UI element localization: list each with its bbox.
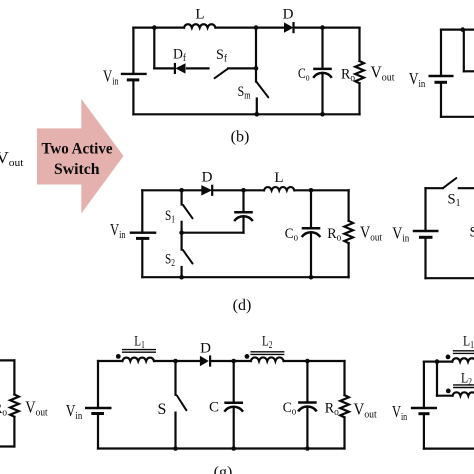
wire (d) middle horizontal	[182, 232, 244, 234]
wire (d) left rail lower	[141, 238, 143, 277]
wire (c) bottom	[441, 116, 474, 118]
inductor L2 (h)	[437, 385, 474, 396]
node (b) Sm bottom	[254, 112, 259, 117]
node (g) Co top	[305, 359, 310, 364]
capacitor C (g)	[224, 403, 243, 412]
svg-text:C: C	[209, 400, 219, 416]
svg-text:Two Active: Two Active	[42, 140, 113, 157]
node (d) cap top	[241, 188, 246, 193]
wire (f) top partial	[0, 359, 14, 361]
arrow Two Active Switch	[37, 99, 124, 214]
node (b) top-Co junction	[320, 25, 325, 30]
wire (b) Df branch vertical	[153, 28, 155, 69]
node (g) Co bottom	[305, 446, 310, 451]
svg-text:(d): (d)	[233, 297, 252, 314]
capacitor Co (b)	[313, 69, 332, 78]
battery Vin (h)	[411, 408, 437, 414]
resistor Ro (g)	[340, 395, 349, 417]
diode D (b)	[284, 22, 294, 33]
wire (g) bottom	[98, 447, 345, 449]
node (g) S top	[173, 359, 178, 364]
wire (b) bottom	[133, 113, 359, 115]
wire (b) left rail upper	[132, 28, 134, 74]
inductor L1 (h)	[437, 351, 474, 362]
diode D (g)	[200, 355, 210, 366]
node (b) Sf-Sm junction	[254, 66, 259, 71]
wire (b) Df branch horizontal	[154, 67, 175, 69]
wire (h) top left	[424, 361, 437, 363]
wire (b) right rail upper	[358, 28, 360, 61]
node (d) Co bottom	[309, 275, 314, 280]
inductor L2 (g)	[245, 352, 285, 361]
node (g) S bottom	[173, 446, 178, 451]
wire (g) top between D and L2	[211, 360, 251, 362]
wire (d) bottom	[142, 276, 348, 278]
node (d) S1 top	[179, 188, 184, 193]
wire (d) cap branch lower	[242, 216, 244, 232]
svg-text:L: L	[274, 170, 283, 186]
svg-text:(g): (g)	[214, 464, 233, 474]
wire (c) left rail lower	[440, 82, 442, 117]
wire (d) right rail lower	[348, 243, 350, 277]
capacitor Co (g)	[298, 403, 317, 412]
wire (d) top left segment	[142, 189, 201, 191]
battery Vin (e)	[413, 231, 439, 237]
wire (d) Co branch lower	[310, 232, 312, 277]
svg-text:S: S	[158, 401, 167, 418]
wire (b) Sf right	[228, 67, 256, 69]
wire (b) top mid segment	[216, 27, 285, 29]
wire (b) right rail lower	[358, 83, 360, 114]
wire (h) left rail lower	[423, 414, 425, 449]
resistor Ro (f)	[10, 395, 19, 417]
battery Vin (d)	[130, 233, 157, 239]
inductor L (b)	[184, 24, 215, 27]
node (g) C top	[231, 359, 236, 364]
switch S (g)	[176, 361, 187, 449]
svg-text:(b): (b)	[231, 129, 250, 146]
svg-text:L: L	[195, 7, 204, 23]
wire (f) bottom partial	[0, 445, 14, 447]
node (b) top-L junction	[152, 25, 157, 30]
node (d) S2 bottom	[179, 275, 184, 280]
wire (g) right rail lower	[343, 417, 345, 448]
battery Vin (c)	[429, 76, 454, 82]
resistor Ro (b)	[355, 61, 364, 83]
wire (e) top left	[426, 187, 443, 189]
wire (b) Sm lower	[256, 99, 258, 115]
svg-text:Switch: Switch	[54, 161, 100, 178]
wire (g) left rail lower	[97, 414, 99, 449]
inductor L1 (g)	[116, 350, 156, 361]
wire (c) left rail upper	[440, 30, 442, 76]
resistor Ro (d)	[344, 221, 353, 243]
node (d) S1-S2 junction	[179, 230, 184, 235]
battery Vin (b)	[121, 74, 147, 80]
wire (b) Sm upper	[255, 28, 257, 82]
diode Df (b)	[175, 63, 186, 74]
wire (h) bottom	[424, 448, 474, 450]
switch Sf (b)	[215, 68, 229, 78]
wire (g) top left segment	[98, 360, 122, 362]
node (c) junction	[460, 27, 465, 32]
battery Vin (g)	[85, 408, 112, 414]
wire (b) Co branch upper	[321, 28, 323, 69]
svg-text:S: S	[470, 225, 474, 241]
wire (d) top right segment	[294, 189, 348, 191]
wire (e) left rail upper	[424, 188, 426, 231]
wire (b) top right segment	[294, 27, 360, 29]
wire (g) top between L1 and S	[154, 360, 201, 362]
wire (b) left rail lower	[132, 80, 134, 114]
wire (g) top right segment	[284, 360, 345, 362]
wire (e) top right	[459, 187, 474, 189]
wire (g) C branch upper	[233, 361, 235, 403]
wire (b) Co branch lower	[321, 73, 323, 114]
wire (h) L2 branch vertical	[436, 362, 438, 396]
svg-text:D: D	[200, 340, 211, 356]
wire (d) left rail upper	[141, 190, 143, 232]
switch S1 (d)	[182, 190, 193, 232]
wire (d) cap branch upper	[242, 190, 244, 212]
wire (b) Sf left	[187, 67, 209, 69]
node (b) Co bottom	[320, 112, 325, 117]
svg-text:D: D	[202, 170, 213, 186]
wire (f) right rail lower	[13, 417, 15, 447]
wire (c) branch vertical	[463, 30, 465, 72]
wire (g) right rail upper	[343, 361, 345, 395]
wire (g) Co branch lower	[306, 407, 308, 449]
switch S2 (d)	[182, 233, 193, 278]
capacitor C flying (d)	[234, 212, 253, 221]
capacitor Co (d)	[302, 228, 321, 237]
svg-text:D: D	[283, 6, 294, 22]
wire (d) top mid segment	[212, 189, 264, 191]
node (g) C bottom	[231, 446, 236, 451]
wire (h) left rail upper	[423, 362, 425, 408]
wire (g) Co branch upper	[306, 361, 308, 403]
switch Sm (b)	[256, 82, 268, 98]
wire (c) top	[441, 29, 474, 31]
switch S1 (e)	[443, 178, 457, 188]
wire (f) right rail upper	[13, 360, 15, 394]
node (b) top-Sm junction	[254, 25, 259, 30]
node (d) Co top	[309, 188, 314, 193]
wire (e) bottom	[426, 277, 474, 279]
wire (g) C branch lower	[233, 407, 235, 449]
wire (d) Co branch upper	[310, 190, 312, 228]
wire (g) left rail upper	[97, 361, 99, 408]
inductor L (d)	[264, 187, 294, 190]
wire (b) top left segment	[133, 27, 184, 29]
wire (d) right rail upper	[348, 190, 350, 221]
wire (e) left rail lower	[424, 237, 426, 278]
wire (c) branch horizontal	[464, 70, 474, 72]
diode D (d)	[201, 185, 212, 196]
node (h) junction	[435, 359, 440, 364]
